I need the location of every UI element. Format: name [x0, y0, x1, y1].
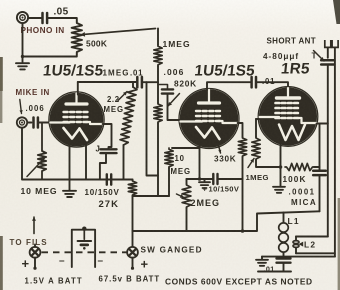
label SHORT ANT [267, 37, 317, 46]
wire screen lead V2 [238, 123, 243, 137]
wire bias rail [133, 195, 170, 197]
coil L1 [279, 213, 289, 257]
wire plate lead V2 [207, 82, 250, 90]
wire [143, 81, 158, 83]
label .05 [54, 7, 69, 18]
label .0001 [289, 188, 316, 197]
wire wiper of R1 [81, 29, 156, 37]
wire cathode lead V2 [199, 146, 201, 179]
label +10/150V [203, 185, 240, 194]
edge artifact left upper [0, 57, 3, 123]
wire arrow on C11 trimmer [314, 51, 325, 62]
wire [258, 271, 291, 273]
label 10 MEG [21, 186, 58, 196]
label 27K [99, 199, 119, 210]
wire arrow on R10 [248, 159, 254, 168]
label 1MEG [103, 69, 130, 78]
wire [21, 54, 77, 58]
wire [327, 65, 329, 237]
label J [96, 145, 100, 154]
label 10 [175, 154, 185, 163]
wire [314, 167, 320, 170]
wire right rail [334, 47, 336, 256]
wire [157, 66, 159, 103]
label - minus left [59, 256, 65, 267]
resistor R2 10 MEG [38, 123, 46, 180]
wire [157, 123, 159, 196]
wire plate bus to coupling [78, 81, 136, 83]
label 10/150V [85, 188, 120, 197]
capacitor C3 .01 [137, 77, 142, 87]
switch S2 [127, 247, 138, 270]
wire [157, 29, 159, 46]
node [198, 177, 202, 181]
wire arrow TO FILS [32, 217, 36, 234]
label MICA [291, 198, 317, 207]
capacitor C1 .05 [43, 13, 48, 23]
wire filament lead V1 [85, 144, 87, 180]
label 330K [214, 155, 236, 164]
wire [283, 263, 285, 272]
label MIKE IN [16, 88, 50, 97]
capacitor C2 .006 [34, 118, 38, 128]
wire plate lead V3 down [280, 145, 282, 187]
label tube V1 1U5/1S5 [42, 63, 104, 80]
jack J2 MIKE IN [17, 117, 27, 127]
tube V3 1R5 oscillator [258, 87, 318, 147]
label 2.2 [107, 95, 120, 104]
wire arrow on R3 [118, 92, 127, 101]
battery B1 [72, 227, 95, 268]
label + A batt [22, 256, 30, 271]
tube V2 1U5/1S5 second audio [179, 89, 239, 149]
ground G1 [16, 63, 29, 69]
label TO FILS [10, 238, 48, 247]
capacitor C6 .006 coupling [158, 85, 181, 121]
label .006 mike cap [26, 104, 45, 113]
node [241, 229, 245, 233]
wire [187, 178, 214, 180]
label 500K [86, 39, 107, 49]
resistor R9 330K [238, 137, 246, 157]
wire [48, 18, 77, 21]
label .01 [264, 265, 275, 274]
wire [39, 122, 51, 124]
label - minus right [98, 256, 104, 267]
resistor R8 2MEG [182, 179, 191, 231]
label PHONO IN [21, 26, 65, 35]
wire cathode lead V1 [69, 145, 71, 190]
resistor R7 10 MEG [165, 148, 200, 196]
wire [319, 175, 321, 211]
resistor R10 1MEG [252, 119, 281, 167]
coil L2 [293, 237, 299, 254]
wire filament stub V2 [218, 146, 221, 154]
ground G4 [273, 187, 285, 193]
wire [296, 252, 335, 254]
wire arrow to mike jack [19, 100, 22, 114]
ground G5 [256, 260, 268, 266]
resistor R4 27K [128, 180, 136, 196]
wire arrow on R2 [27, 158, 45, 177]
label 67.5v B BATT [99, 275, 161, 284]
jack J1 PHONO IN [17, 12, 28, 23]
label 820K [174, 79, 197, 89]
ground G2 [63, 191, 76, 197]
label .01 [262, 77, 275, 86]
resistor R3 2.2 MEG [120, 87, 137, 145]
label L2 [299, 240, 317, 250]
resistor R1 500K [72, 21, 82, 54]
wire dashed gang link [42, 251, 127, 253]
edge artifact top right [333, 0, 340, 24]
label 1MEG [163, 39, 191, 49]
capacitor C11 trimmer 4-80uuf [321, 60, 334, 64]
label MEG [104, 105, 124, 114]
wire to switch S2 [132, 196, 134, 247]
wire [256, 118, 260, 120]
wire ground spur [261, 257, 263, 259]
wire [242, 157, 244, 231]
wire arrow on R6 [168, 94, 180, 107]
resistor R6 820K [154, 103, 162, 123]
wire [100, 153, 106, 179]
switch S1 [30, 245, 41, 270]
label CONDS 600V EXCEPT AS NOTED [165, 277, 313, 287]
label .01 [130, 69, 143, 78]
antenna terminals [325, 40, 338, 47]
resistor R5 1MEG [154, 45, 162, 66]
wire grid branch V3 [317, 123, 328, 125]
label SW GANGED [141, 246, 203, 255]
wire [123, 145, 125, 180]
wire mystery drop [147, 82, 159, 175]
wire [262, 256, 335, 258]
label 100K [283, 175, 307, 184]
capacitor C10 .01 [277, 259, 291, 263]
label MEG [171, 167, 191, 176]
wire [319, 124, 321, 168]
capacitor C8 10/150V electrolytic [213, 174, 217, 184]
label tube V3 1R5 [280, 61, 311, 78]
wire [22, 128, 133, 180]
wire [218, 178, 243, 180]
label .006 [164, 67, 185, 77]
capacitor C7 .01 coupling [252, 77, 256, 87]
wire plate lead V1 [77, 82, 79, 95]
edge artifact left lower [0, 236, 3, 290]
capacitor C4 J [101, 149, 117, 153]
tube V1 1U5/1S5 first audio [49, 92, 104, 147]
capacitor C9 .0001 MICA [313, 171, 326, 175]
capacitor C5 10/150V electrolytic [107, 174, 111, 184]
wire [296, 236, 328, 238]
label L1 [288, 216, 300, 226]
ground G3 [199, 179, 210, 188]
node [279, 165, 283, 169]
wire [132, 82, 134, 87]
label 2MEG [191, 198, 221, 208]
label tube V2 1U5/1S5 [194, 63, 256, 80]
wire antenna lead [327, 47, 329, 57]
edge artifact right lower [338, 198, 340, 290]
wire [28, 122, 32, 124]
wire B+ rail [133, 211, 320, 231]
wire arrow on R8 [177, 194, 185, 198]
label 4-80uuf [263, 52, 317, 62]
wire screen lead V1 [103, 124, 112, 149]
wire [132, 179, 134, 182]
resistor R11 100K [285, 163, 314, 170]
wire [22, 23, 24, 62]
label 1.5V A BATT [25, 277, 83, 286]
label 1MEG [246, 173, 269, 182]
label + B batt [141, 257, 149, 272]
wire [257, 82, 288, 88]
wire [28, 17, 41, 19]
